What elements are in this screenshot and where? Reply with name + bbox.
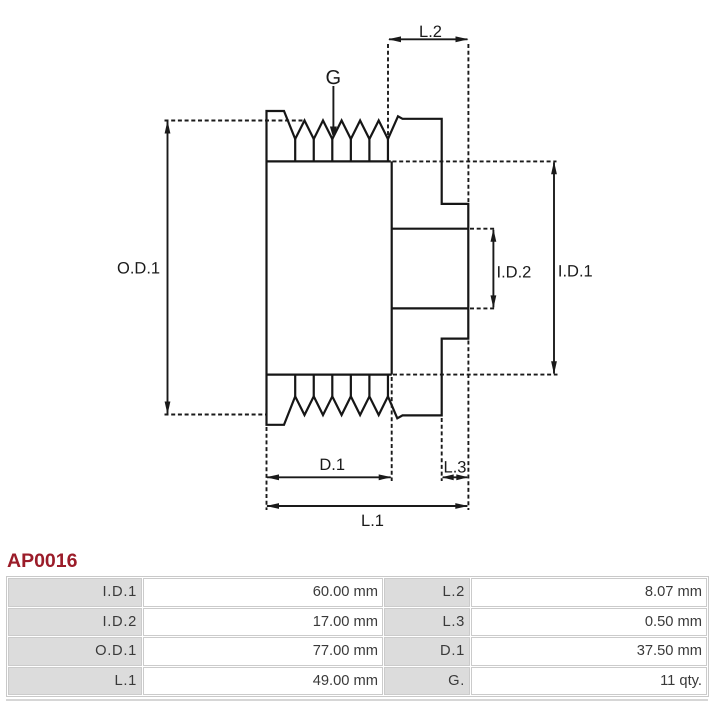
bore line top (I.D.2) [392,228,469,230]
svg-text:L.2: L.2 [419,23,442,41]
leader G arrow [332,86,334,128]
groove stems top [295,139,388,161]
dimension lines with arrowheads [165,36,557,509]
pulley outer outline [267,111,469,425]
dim L.2 [389,38,468,40]
svg-text:D.1: D.1 [319,456,345,474]
ext line D.1/L.1 left (x=266.5) [266,427,268,510]
svg-text:I.D.2: I.D.2 [497,263,532,281]
dim L.1 [267,505,467,507]
svg-text:O.D.1: O.D.1 [117,259,160,277]
ext line I.D.1 bottom [393,374,558,376]
dashed extension lines [165,44,558,510]
svg-text:G: G [326,67,342,89]
groove stems bottom [295,375,388,397]
dim D.1 [267,476,391,478]
dim L.3 [443,476,468,478]
dim O.D.1 [167,122,169,414]
ext line L.2 left (x=388) [387,44,389,136]
ext line right column (x=468.4) lower [467,341,469,511]
ext line I.D.2 bottom [470,307,496,309]
dim I.D.1 [553,162,555,373]
ext line D.1 right (x=391.7) [391,377,393,481]
dim I.D.2 [492,230,494,308]
ext line right column (x=468.4) upper [467,44,469,202]
dimensions table [6,576,709,697]
ext line O.D.1 bottom [165,414,267,416]
ext line O.D.1 top [165,120,306,122]
rib base line bottom [267,374,392,376]
svg-text:I.D.1: I.D.1 [558,263,593,281]
dimension labels [117,23,593,530]
product code [7,550,77,573]
svg-text:L.3: L.3 [444,459,467,477]
svg-text:L.1: L.1 [361,512,384,530]
ext line I.D.1 top [393,160,557,162]
bore line bottom (I.D.2) [392,307,469,309]
ext line I.D.2 top [470,228,496,230]
rib base line top [267,160,391,162]
web right edge [391,161,393,374]
ext line L.3 left (x=441.7) [441,418,443,481]
bottom strip [6,699,708,702]
pulley technical drawing [0,0,720,560]
